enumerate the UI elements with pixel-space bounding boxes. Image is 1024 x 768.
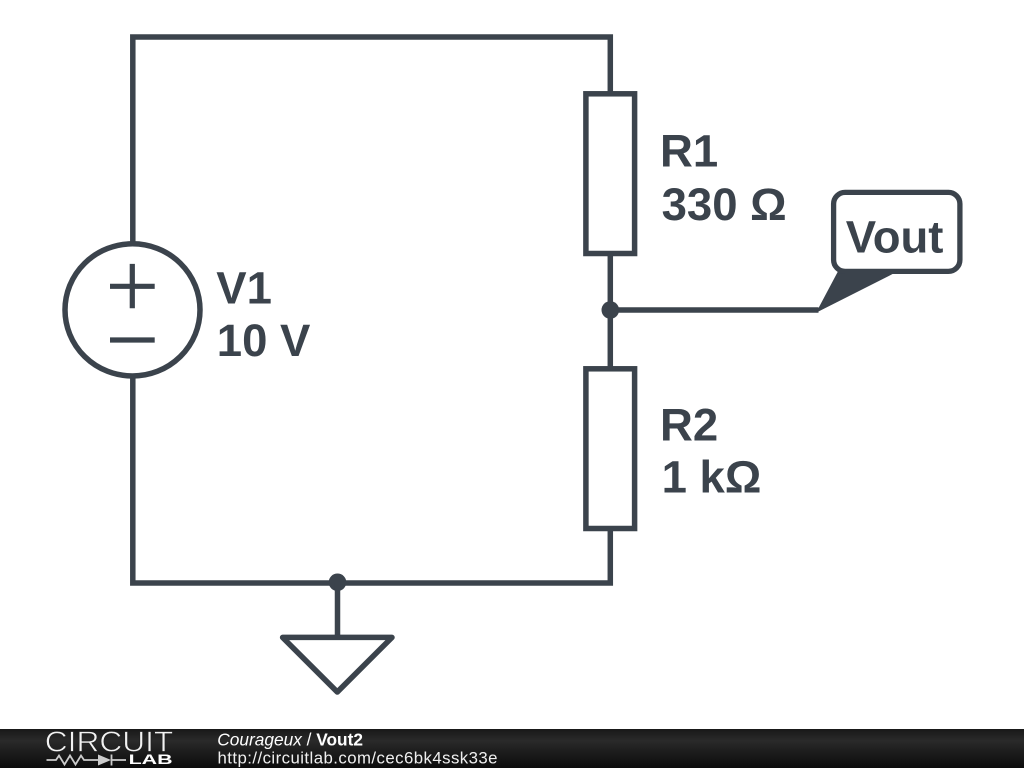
Vout flag tail <box>816 269 893 313</box>
ground node dot <box>329 574 347 592</box>
svg-text:LAB: LAB <box>129 751 173 767</box>
svg-text:1 kΩ: 1 kΩ <box>662 452 762 503</box>
ground symbol triangle <box>283 637 392 692</box>
wire node to Vout tail <box>610 307 818 313</box>
svg-text:10 V: 10 V <box>217 315 311 366</box>
CircuitLab logo squiggle resistor+diode <box>47 755 127 766</box>
svg-text:330 Ω: 330 Ω <box>662 179 787 230</box>
svg-text:http://circuitlab.com/cec6bk4s: http://circuitlab.com/cec6bk4ssk33e <box>218 749 498 768</box>
svg-text:R2: R2 <box>660 400 718 451</box>
V1 minus sign <box>110 337 155 342</box>
svg-text:Courageux / Vout2: Courageux / Vout2 <box>217 730 363 750</box>
resistor R2 <box>586 369 635 529</box>
Vout flag bubble <box>834 192 960 271</box>
ground stub wire <box>335 583 341 637</box>
voltage source V1 <box>65 244 200 376</box>
resistor R1 <box>586 94 635 254</box>
svg-text:Vout: Vout <box>846 212 944 263</box>
node junction dot <box>602 301 620 319</box>
wire left bottom: V1 bottom to bottom rail <box>133 378 611 584</box>
V1 plus sign <box>110 264 155 308</box>
wire top loop: V1 top to R1 top <box>133 37 611 242</box>
footer bar <box>0 729 1024 768</box>
wire R1 bottom to R2 top through node <box>608 253 614 369</box>
svg-text:R1: R1 <box>660 126 718 177</box>
svg-text:V1: V1 <box>216 262 272 313</box>
